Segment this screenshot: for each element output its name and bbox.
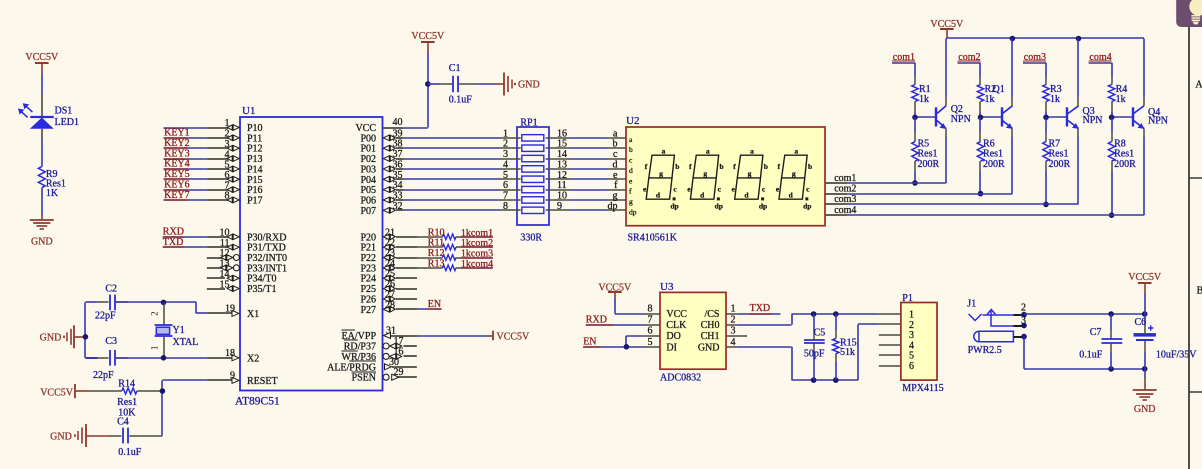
svg-text:DO: DO xyxy=(666,331,680,342)
svg-text:g: g xyxy=(613,190,618,201)
node RXD (U3) xyxy=(586,314,644,325)
svg-text:10uF/35V: 10uF/35V xyxy=(1156,349,1197,360)
wire U1 P04 to RP1 pin 5 xyxy=(403,170,521,181)
resistor R2 1k xyxy=(977,77,996,112)
pin 25 P24 xyxy=(360,269,417,285)
node C7 top xyxy=(1108,311,1114,317)
svg-text:KEY3: KEY3 xyxy=(164,148,190,159)
transistor Q1 NPN xyxy=(1002,97,1013,137)
svg-text:29: 29 xyxy=(394,367,404,378)
wire RP1 pin 15 to U2 b xyxy=(546,139,626,150)
wire base node 2 xyxy=(980,112,1002,117)
svg-text:VCC: VCC xyxy=(666,309,687,320)
svg-text:1k: 1k xyxy=(985,94,995,105)
svg-text:C1: C1 xyxy=(449,63,461,74)
svg-text:U3: U3 xyxy=(660,281,674,293)
svg-text:35: 35 xyxy=(393,170,403,181)
svg-text:P07: P07 xyxy=(360,206,376,217)
svg-text:CH0: CH0 xyxy=(701,320,720,331)
svg-text:8: 8 xyxy=(225,191,230,202)
svg-text:4: 4 xyxy=(503,159,508,170)
wire U1 P02 to RP1 pin 3 xyxy=(403,149,521,160)
svg-text:g: g xyxy=(792,169,796,178)
svg-text:5: 5 xyxy=(503,170,508,181)
svg-text:P31/TXD: P31/TXD xyxy=(247,243,286,254)
connector J1 PWR2.5 xyxy=(967,298,1026,356)
pin 3 P12 xyxy=(207,139,263,155)
svg-text:TXD: TXD xyxy=(750,303,771,314)
IDE tooltip icon xyxy=(1176,0,1202,27)
svg-text:P04: P04 xyxy=(360,175,376,186)
svg-text:10: 10 xyxy=(220,228,230,239)
node C6 top xyxy=(1142,311,1148,317)
node base junction 2 xyxy=(978,115,984,121)
svg-text:VCC5V: VCC5V xyxy=(497,332,531,343)
svg-text:CLK: CLK xyxy=(666,320,687,331)
svg-text:330R: 330R xyxy=(520,232,542,243)
svg-text:dp: dp xyxy=(803,201,811,210)
wire base node 1 xyxy=(915,112,936,117)
pin 2 P11 xyxy=(207,129,262,145)
svg-text:200R: 200R xyxy=(918,159,940,170)
svg-text:Res1: Res1 xyxy=(117,397,137,408)
svg-text:NPN: NPN xyxy=(951,114,971,125)
node R15 bottom xyxy=(833,377,839,383)
svg-text:7: 7 xyxy=(648,315,653,326)
display U2 SR410561K body xyxy=(626,115,825,243)
pin 12 P32/INT0 xyxy=(207,248,287,264)
resistor R6 Res1 200R xyxy=(977,117,1005,193)
node com1 (driver) xyxy=(892,52,915,77)
svg-text:C3: C3 xyxy=(105,336,117,347)
pin 16 WR/P36 xyxy=(342,346,417,363)
wire VCC rail to pin40 xyxy=(403,52,428,128)
pin 8 P17 xyxy=(207,191,263,207)
svg-text:KEY1: KEY1 xyxy=(164,128,190,139)
wire VCC5V to U3 VCC xyxy=(615,298,644,314)
pin 3 U3 right xyxy=(726,326,747,337)
label Q3 xyxy=(1083,106,1103,126)
pin 17 RD/P37 xyxy=(344,336,417,353)
svg-text:GND: GND xyxy=(31,237,53,248)
svg-text:b: b xyxy=(719,162,723,171)
svg-text:16: 16 xyxy=(394,346,404,357)
svg-text:C6: C6 xyxy=(1135,317,1147,328)
pin 6 P1 xyxy=(879,365,901,367)
wire driver VCC rail xyxy=(946,37,1144,39)
svg-text:12: 12 xyxy=(557,170,567,181)
wire collector Q1 xyxy=(1011,39,1013,98)
svg-text:13: 13 xyxy=(220,259,230,270)
pin com4 of U2 xyxy=(825,205,856,216)
wire U3 GND to rail xyxy=(737,324,879,380)
svg-text:KEY2: KEY2 xyxy=(164,138,190,149)
svg-text:4: 4 xyxy=(731,337,736,348)
node J1 pin2 xyxy=(1021,312,1027,318)
svg-text:VCC5V: VCC5V xyxy=(25,52,59,63)
wire RP1 pin 10 to U2 g xyxy=(546,190,626,201)
pin 8 U3 left xyxy=(644,304,661,315)
wire C2 to X1 xyxy=(115,302,207,313)
svg-text:18: 18 xyxy=(225,348,235,359)
svg-text:g: g xyxy=(703,169,707,178)
node J1 pin3 xyxy=(1021,323,1027,329)
node emitter junction 1 xyxy=(912,180,918,186)
svg-text:22pF: 22pF xyxy=(95,310,116,321)
wire collector Q4 xyxy=(1143,39,1145,98)
svg-text:A: A xyxy=(1195,80,1202,91)
svg-text:C7: C7 xyxy=(1090,327,1102,338)
svg-text:VCC: VCC xyxy=(355,123,376,134)
svg-text:1k: 1k xyxy=(1116,94,1126,105)
label Q2 xyxy=(951,104,971,125)
svg-text:Y1: Y1 xyxy=(173,325,185,336)
svg-text:200R: 200R xyxy=(1049,159,1071,170)
pin 34 P05 xyxy=(360,180,403,196)
node com4 (driver) xyxy=(1089,52,1112,77)
pin 5 P14 xyxy=(207,160,263,176)
resistor R13 1k net com4 xyxy=(417,258,493,270)
svg-text:SR410561K: SR410561K xyxy=(628,232,678,243)
node RXD (U1) xyxy=(163,227,207,238)
node com2 (driver) xyxy=(958,52,981,77)
svg-text:RESET: RESET xyxy=(247,376,278,387)
svg-text:RXD: RXD xyxy=(163,227,184,238)
pin 15 P35/T1 xyxy=(207,279,277,295)
pin 5 P1 xyxy=(879,354,901,356)
node C5 bottom xyxy=(811,377,817,383)
svg-text:P00: P00 xyxy=(360,133,376,144)
capacitor C4 0.1uF xyxy=(109,417,162,459)
svg-text:PWR2.5: PWR2.5 xyxy=(968,345,1002,356)
svg-text:RP1: RP1 xyxy=(520,117,537,128)
pin 36 P03 xyxy=(360,159,403,175)
svg-text:27: 27 xyxy=(385,289,395,300)
pin 32 P07 xyxy=(360,201,403,217)
resistor R3 1k xyxy=(1043,77,1062,112)
svg-text:P12: P12 xyxy=(247,144,263,155)
svg-text:P16: P16 xyxy=(247,185,263,196)
svg-text:/CS: /CS xyxy=(704,309,719,320)
pin 4 U3 right xyxy=(726,337,737,348)
resistor R11 1k net com2 xyxy=(417,238,493,250)
resistor R5 Res1 200R xyxy=(912,117,940,183)
diode DS1 LED1 xyxy=(18,94,79,140)
svg-text:0.1uF: 0.1uF xyxy=(118,447,142,458)
wire emitter Q1 xyxy=(1011,137,1013,194)
svg-text:X1: X1 xyxy=(247,309,259,320)
pin 18 X2 xyxy=(207,348,259,364)
svg-text:14: 14 xyxy=(557,149,567,160)
svg-text:P30/RXD: P30/RXD xyxy=(247,232,286,243)
node reset junction xyxy=(160,388,166,394)
svg-text:RXD: RXD xyxy=(586,314,607,325)
adc U3 ADC0832 body xyxy=(660,281,726,384)
pin 14 P34/T0 xyxy=(207,269,277,285)
pin 7 P16 xyxy=(207,180,263,196)
svg-text:0.1uF: 0.1uF xyxy=(449,95,473,106)
node emitter junction 4 xyxy=(1109,212,1115,218)
svg-text:12: 12 xyxy=(220,248,230,259)
sheet border xyxy=(1189,0,1202,469)
power port VCC5V (supply) xyxy=(1128,272,1162,314)
node X1 junction xyxy=(161,300,167,306)
svg-text:2: 2 xyxy=(150,311,160,316)
pin 21 P20 xyxy=(360,227,417,243)
label Q4 xyxy=(1148,107,1168,127)
svg-text:P34/T0: P34/T0 xyxy=(247,274,276,285)
svg-text:GND: GND xyxy=(40,333,62,344)
svg-text:19: 19 xyxy=(225,304,235,315)
pin 11 P31/TXD xyxy=(207,238,286,254)
power port VCC5V (reset) xyxy=(40,384,87,398)
svg-text:Res1: Res1 xyxy=(918,149,938,160)
wire R9 to GND xyxy=(41,188,43,216)
svg-text:1: 1 xyxy=(503,128,508,139)
svg-text:4: 4 xyxy=(225,149,230,160)
pin 13 P33/INT1 xyxy=(207,259,287,275)
svg-text:P27: P27 xyxy=(360,305,376,316)
wire VCC5V to DS1 xyxy=(41,73,43,94)
wire RP1 pin 16 to U2 a xyxy=(546,128,626,139)
svg-text:39: 39 xyxy=(393,128,403,139)
pin 40 VCC xyxy=(355,117,403,134)
svg-text:51k: 51k xyxy=(840,347,855,358)
svg-text:a: a xyxy=(706,146,710,155)
svg-text:GND: GND xyxy=(518,80,540,91)
node C5 top xyxy=(811,311,817,317)
svg-text:24: 24 xyxy=(385,258,395,269)
ground GND (C1) xyxy=(495,73,540,96)
wire J1 to GND rail xyxy=(1024,337,1145,369)
pin 39 P00 xyxy=(360,128,403,144)
wire com3 row xyxy=(847,203,1079,205)
svg-text:C4: C4 xyxy=(117,417,129,428)
node TXD (U3) xyxy=(737,303,781,314)
capacitor C6 10uF/35V polarized xyxy=(1134,314,1198,369)
svg-text:34: 34 xyxy=(393,180,403,191)
svg-text:P11: P11 xyxy=(247,133,262,144)
node KEY2 xyxy=(164,138,207,149)
svg-text:Res1: Res1 xyxy=(983,149,1003,160)
svg-text:PSEN: PSEN xyxy=(352,373,376,384)
ground GND (supply) xyxy=(1133,369,1157,415)
capacitor C1 0.1uF xyxy=(428,63,478,105)
svg-text:X2: X2 xyxy=(247,353,259,364)
svg-text:2: 2 xyxy=(503,139,508,150)
resistor R10 1k net com1 xyxy=(417,227,493,239)
svg-text:g: g xyxy=(659,169,663,178)
pin 30 ALE/PRDG xyxy=(327,357,417,374)
svg-text:XTAL: XTAL xyxy=(173,337,199,348)
svg-text:13: 13 xyxy=(557,159,567,170)
svg-text:KEY6: KEY6 xyxy=(164,179,190,190)
pin 2 P1 xyxy=(879,323,901,325)
svg-text:GND: GND xyxy=(50,432,72,443)
wire U1 P05 to RP1 pin 6 xyxy=(403,180,521,191)
svg-text:3: 3 xyxy=(503,149,508,160)
svg-text:3: 3 xyxy=(731,326,736,337)
pin 37 P02 xyxy=(360,149,403,165)
node EN junction xyxy=(624,344,630,350)
wire C3 to X2 xyxy=(115,357,207,359)
svg-text:8: 8 xyxy=(648,304,653,315)
svg-text:23: 23 xyxy=(385,248,395,259)
resistor R1 1k xyxy=(912,77,931,112)
svg-text:b: b xyxy=(675,162,679,171)
pin 2 U3 right xyxy=(726,315,737,326)
wire DS1 to R9 xyxy=(41,140,43,167)
svg-text:26: 26 xyxy=(385,279,395,290)
svg-text:0.1uF: 0.1uF xyxy=(1079,349,1103,360)
pin com2 of U2 xyxy=(825,183,856,194)
node C6 bottom xyxy=(1142,366,1148,372)
svg-text:22pF: 22pF xyxy=(93,370,114,381)
svg-text:P14: P14 xyxy=(247,164,263,175)
resistor R4 1k xyxy=(1108,77,1127,112)
svg-text:P23: P23 xyxy=(360,263,376,274)
resistor R12 1k net com3 xyxy=(417,248,493,260)
pin 1 P1 xyxy=(879,313,901,315)
svg-text:P15: P15 xyxy=(247,175,263,186)
pin 35 P04 xyxy=(360,170,403,186)
pin 27 P26 xyxy=(360,289,417,305)
svg-text:DI: DI xyxy=(666,342,677,353)
svg-text:6: 6 xyxy=(909,361,914,372)
pin 22 P21 xyxy=(360,238,417,254)
svg-text:1k: 1k xyxy=(1050,94,1060,105)
pin com3 of U2 xyxy=(825,194,856,205)
svg-text:dp: dp xyxy=(715,201,723,210)
svg-text:AT89C51: AT89C51 xyxy=(235,396,280,408)
node base junction 1 xyxy=(912,115,918,121)
svg-text:P13: P13 xyxy=(247,154,263,165)
wire base node 4 xyxy=(1112,112,1133,117)
capacitor C3 22pF xyxy=(93,336,128,381)
wire collector Q3 xyxy=(1077,39,1079,98)
svg-text:7: 7 xyxy=(503,190,508,201)
svg-text:25: 25 xyxy=(385,269,395,280)
wire U1 P01 to RP1 pin 2 xyxy=(403,139,521,150)
wire C1 to GND xyxy=(478,83,495,85)
transistor Q4 NPN xyxy=(1133,97,1145,137)
svg-text:b: b xyxy=(764,162,768,171)
wire emitter Q2 xyxy=(945,137,947,183)
pin 5 U3 left xyxy=(644,337,661,348)
svg-text:C5: C5 xyxy=(814,328,826,339)
power port VCC5V (U3) xyxy=(598,282,632,298)
svg-text:7: 7 xyxy=(225,180,230,191)
op-amp U1 AT89C51 body xyxy=(235,105,383,408)
svg-text:33: 33 xyxy=(393,190,403,201)
wire J1 to VCC rail xyxy=(1024,313,1145,315)
svg-text:17: 17 xyxy=(394,336,404,347)
power port VCC5V (U1 supply) xyxy=(411,31,445,52)
seven-segment digit 3 xyxy=(732,146,768,210)
svg-text:ADC0832: ADC0832 xyxy=(660,372,701,383)
power port VCC5V (LED branch) xyxy=(25,52,59,73)
svg-text:R12: R12 xyxy=(428,248,445,259)
svg-text:21: 21 xyxy=(385,227,395,238)
pin 24 P23 xyxy=(360,258,417,274)
svg-text:15: 15 xyxy=(220,279,230,290)
wire GND branch to C3 xyxy=(85,357,97,359)
pin 4 P1 xyxy=(879,344,901,346)
capacitor C2 22pF xyxy=(95,283,128,321)
resistor R15 51k xyxy=(833,314,857,380)
node KEY5 xyxy=(164,169,207,180)
wire RP1 pin 9 to U2 dp xyxy=(546,201,626,212)
wire C2 left to GND branch xyxy=(85,302,98,358)
pin 6 P15 xyxy=(207,170,263,186)
seven-segment digit 2 xyxy=(687,146,723,210)
wire U1 P06 to RP1 pin 7 xyxy=(403,190,521,201)
svg-text:VCC5V: VCC5V xyxy=(40,387,74,398)
node C1 junction xyxy=(425,81,431,87)
svg-text:6: 6 xyxy=(503,180,508,191)
pin 38 P01 xyxy=(360,139,403,155)
svg-text:P26: P26 xyxy=(360,294,376,305)
pin 4 P13 xyxy=(207,149,263,165)
pin 31 EA/VPP xyxy=(342,326,418,343)
capacitor C7 0.1uF xyxy=(1079,314,1122,369)
svg-text:CH1: CH1 xyxy=(701,331,720,342)
resistor pack RP1 330R xyxy=(517,117,549,243)
node J1 sleeve xyxy=(1021,334,1027,340)
svg-text:Res1: Res1 xyxy=(1049,149,1069,160)
node X2 junction xyxy=(161,355,167,361)
svg-text:DS1: DS1 xyxy=(55,106,73,117)
svg-text:P21: P21 xyxy=(360,243,376,254)
svg-text:g: g xyxy=(748,169,752,178)
node R15 top xyxy=(833,311,839,317)
pin 1 U3 right xyxy=(726,304,737,315)
node EN (U3) xyxy=(583,336,643,348)
capacitor C5 50pF xyxy=(804,314,825,380)
svg-text:1: 1 xyxy=(150,346,160,351)
wire emitter Q4 xyxy=(1143,137,1145,215)
wire com4 row xyxy=(847,214,1144,216)
node EN (U1) xyxy=(417,299,442,310)
pin 7 U3 left xyxy=(644,315,661,326)
svg-text:a: a xyxy=(613,128,618,139)
node base junction 3 xyxy=(1043,115,1049,121)
svg-text:3: 3 xyxy=(225,139,230,150)
pin com1 of U2 xyxy=(825,173,856,184)
svg-text:B: B xyxy=(1197,285,1202,296)
svg-text:a: a xyxy=(750,146,754,155)
wire com1 row xyxy=(847,182,946,184)
wire emitter Q3 xyxy=(1077,137,1079,204)
node KEY6 xyxy=(164,179,207,190)
svg-text:11: 11 xyxy=(220,238,230,249)
svg-text:P05: P05 xyxy=(360,185,376,196)
svg-text:b: b xyxy=(808,162,812,171)
svg-text:GND: GND xyxy=(1134,404,1156,415)
wire RP1 pin 12 to U2 e xyxy=(546,170,626,181)
node rail junction Q1 xyxy=(1010,36,1016,42)
svg-text:1K: 1K xyxy=(46,188,59,199)
svg-text:b: b xyxy=(629,145,633,154)
node KEY4 xyxy=(164,159,207,170)
pin 29 PSEN xyxy=(352,367,417,384)
wire reset node xyxy=(162,380,207,436)
svg-text:Res1: Res1 xyxy=(1114,149,1134,160)
svg-text:P10: P10 xyxy=(247,123,263,134)
wire RP1 pin 13 to U2 d xyxy=(546,159,626,170)
svg-text:R14: R14 xyxy=(118,378,135,389)
wire collector Q2 xyxy=(945,39,947,98)
